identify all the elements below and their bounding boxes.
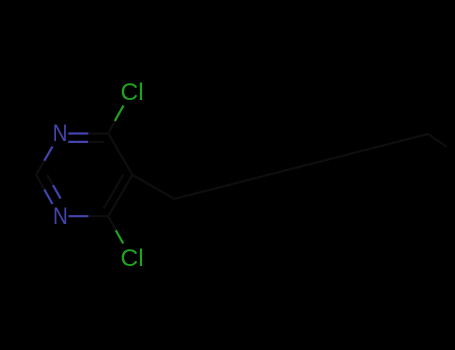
svg-text:Cl: Cl [121, 245, 144, 272]
svg-text:N: N [53, 202, 68, 229]
svg-text:N: N [53, 120, 68, 147]
svg-text:Cl: Cl [121, 79, 144, 106]
